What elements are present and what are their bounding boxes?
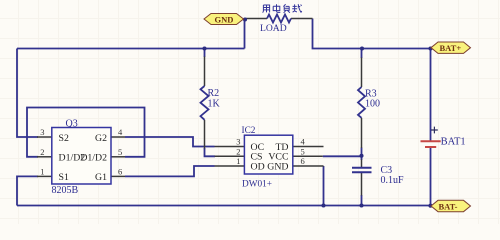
svg-text:5: 5 (118, 147, 122, 157)
wire: Q3 D1/D2 loop pin2 to pin5 over the top (27, 108, 145, 157)
IC2 pin numbers (236, 137, 305, 167)
pin C3.2 (361, 172, 363, 195)
char 负 (283, 4, 290, 13)
svg-text:BAT1: BAT1 (441, 137, 466, 148)
pin IC2.2 (215, 155, 245, 157)
Q3 body (52, 128, 111, 185)
IC2 body (244, 135, 292, 174)
wire: VCC junction to IC2 pin5 (323, 155, 362, 157)
junction VCC/R3/C3 (359, 154, 363, 158)
wire: battery bottom to BAT- (430, 147, 432, 205)
pin R3.2 (361, 118, 363, 148)
pin Q3.6 (111, 175, 125, 177)
svg-text:S1: S1 (59, 172, 69, 183)
svg-text:G1: G1 (95, 172, 107, 183)
svg-text:100: 100 (365, 98, 380, 109)
wire: R2 branch vertical from rail (204, 49, 206, 58)
pin LOAD.2 (291, 18, 313, 20)
svg-text:6: 6 (301, 156, 305, 166)
svg-text:LOAD: LOAD (260, 23, 287, 34)
svg-text:BAT+: BAT+ (440, 43, 462, 53)
wire: BAT+ down to battery top (430, 49, 432, 141)
char 用 (263, 5, 270, 13)
svg-text:1K: 1K (208, 99, 221, 110)
svg-text:G2: G2 (95, 133, 107, 144)
wire: GND rail top-left horizontal y=48.5 (17, 48, 245, 50)
junction at GND port (243, 17, 247, 21)
wire: IC2 pin6 GND drop to bottom rail (323, 166, 325, 206)
junction C3 on rail (359, 203, 363, 207)
svg-text:S2: S2 (59, 133, 69, 144)
junction BAT- (428, 204, 432, 208)
char 载 (292, 4, 302, 12)
svg-text:1: 1 (40, 167, 44, 177)
wire: R2 bottom to IC2 pin2 CS (205, 148, 216, 156)
wire: Q3 G2 to IC2 OC (125, 137, 215, 147)
pin Q3.4 (111, 136, 125, 138)
wire: left vertical down to Q3 pin3 S2 (17, 49, 38, 138)
svg-text:R2: R2 (208, 88, 220, 99)
pin IC2.5 (293, 155, 323, 157)
wire: LOAD right side down to BAT+ rail (313, 19, 431, 49)
pin Q3.5 (111, 156, 125, 158)
svg-text:OD: OD (251, 162, 265, 173)
Q3 pin numbers (40, 127, 123, 176)
svg-text:2: 2 (236, 147, 240, 157)
wire: R3 bottom to VCC junction (361, 148, 363, 161)
svg-text:GND: GND (267, 162, 288, 173)
svg-text:0.1uF: 0.1uF (381, 175, 405, 186)
IC2 pin names (251, 142, 289, 173)
svg-text:6: 6 (118, 167, 122, 177)
svg-text:IC2: IC2 (242, 126, 256, 136)
pin R3.1 (361, 58, 363, 88)
battery plus sign (431, 127, 438, 134)
svg-text:3: 3 (236, 137, 240, 147)
wire: C3 bottom to rail (361, 195, 363, 206)
svg-text:1: 1 (236, 156, 240, 166)
svg-text:8205B: 8205B (52, 185, 79, 196)
pin IC2.1 (215, 165, 245, 167)
wire: bottom rail (17, 205, 431, 207)
pin LOAD.1 (246, 18, 268, 20)
pin Q3.3 (37, 136, 52, 138)
pin IC2.6 (293, 165, 324, 167)
pin R2.2 (204, 120, 206, 149)
svg-text:BAT-: BAT- (439, 201, 458, 211)
pin Q3.1 (37, 175, 52, 177)
pin IC2.3 (215, 146, 245, 148)
pin IC2.4 (TD, unconnected stub) (293, 146, 324, 148)
wire: GND drop from port junction down to rail (244, 20, 246, 49)
wire: Q3 S1 to bottom rail (17, 176, 38, 205)
junction R2 top (202, 46, 206, 50)
svg-text:2: 2 (40, 147, 44, 157)
junction IC2 GND on rail (321, 203, 325, 207)
svg-text:Q3: Q3 (66, 119, 78, 130)
pin R2.1 (204, 57, 206, 87)
svg-text:DW01+: DW01+ (242, 179, 272, 189)
pin Q3.2 (37, 156, 52, 158)
pin C3.1 (361, 160, 363, 168)
char 电 (273, 4, 280, 12)
wire: R3 drop from rail to zigzag (361, 49, 363, 59)
junction BAT+ (428, 46, 432, 50)
svg-text:5: 5 (301, 147, 305, 157)
svg-text:D1/D2: D1/D2 (80, 153, 107, 164)
junction R3 top (360, 46, 364, 50)
svg-text:3: 3 (40, 127, 44, 137)
comment 用电负载 (drawn strokes) (263, 4, 302, 13)
wire: Q3 G1 to IC2 OD (125, 166, 215, 176)
Q3 pin names (59, 133, 108, 183)
svg-text:GND: GND (215, 14, 234, 24)
